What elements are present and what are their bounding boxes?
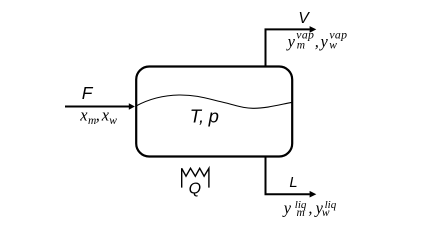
- svg-text:L: L: [289, 175, 297, 191]
- svg-text:w: w: [322, 207, 330, 219]
- svg-text:V: V: [298, 10, 310, 27]
- svg-text:,: ,: [96, 106, 100, 125]
- svg-text:,: ,: [308, 199, 312, 218]
- svg-text:T, p: T, p: [190, 106, 219, 127]
- svg-text:y: y: [286, 32, 296, 51]
- svg-text:Q: Q: [189, 181, 201, 198]
- svg-text:m: m: [297, 207, 305, 219]
- svg-text:y: y: [319, 32, 329, 51]
- svg-text:x: x: [79, 106, 88, 125]
- svg-text:,: ,: [315, 32, 319, 51]
- svg-text:m: m: [297, 40, 305, 52]
- svg-text:w: w: [329, 40, 337, 52]
- svg-text:y: y: [282, 199, 292, 218]
- svg-text:F: F: [82, 83, 94, 103]
- svg-text:w: w: [109, 115, 117, 127]
